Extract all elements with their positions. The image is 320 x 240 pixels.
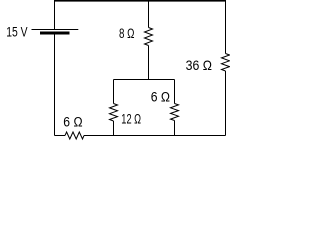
svg-text:6 Ω: 6 Ω [151, 89, 170, 105]
svg-text:8 Ω: 8 Ω [119, 25, 134, 41]
svg-text:12 Ω: 12 Ω [121, 111, 141, 128]
svg-text:15 V: 15 V [6, 24, 28, 40]
svg-text:36 Ω: 36 Ω [186, 57, 212, 73]
svg-text:6 Ω: 6 Ω [63, 114, 82, 130]
